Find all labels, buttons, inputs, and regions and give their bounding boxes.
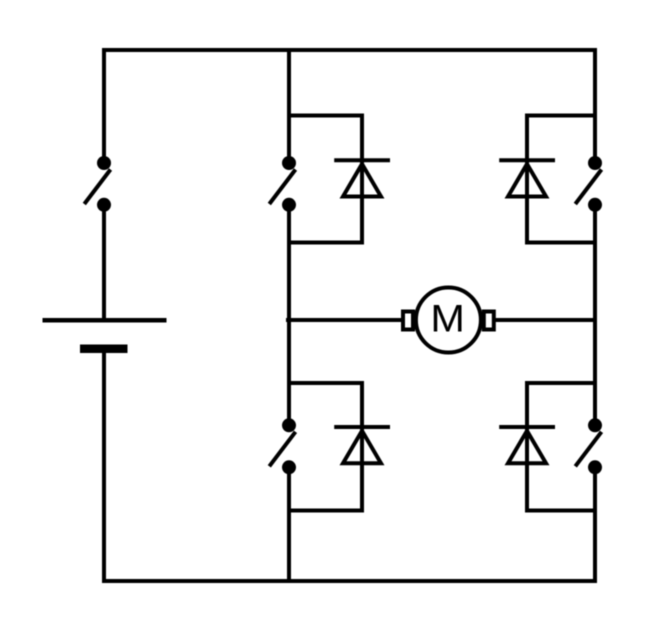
diode (top-right) (499, 160, 555, 196)
diode (bottom-right) (499, 427, 555, 463)
switch (bottom-left) (269, 418, 296, 474)
wire (286, 318, 403, 322)
diode (bottom-left) (334, 427, 390, 463)
switch (top-left) (269, 156, 296, 212)
wire (104, 50, 595, 163)
wire (102, 205, 106, 319)
wire (287, 205, 291, 425)
wire (289, 383, 362, 511)
wire (593, 205, 597, 425)
motor M (403, 288, 494, 353)
wire (494, 318, 597, 322)
switch (bottom-right) (575, 418, 602, 474)
wire (527, 116, 595, 243)
wire (289, 116, 362, 243)
wire (287, 50, 291, 163)
wire (104, 349, 595, 581)
battery (43, 320, 167, 349)
diode (top-left) (334, 160, 390, 196)
wire (527, 383, 595, 511)
wire (287, 467, 291, 581)
switch (battery branch) (84, 156, 111, 212)
switch (top-right) (575, 156, 602, 212)
